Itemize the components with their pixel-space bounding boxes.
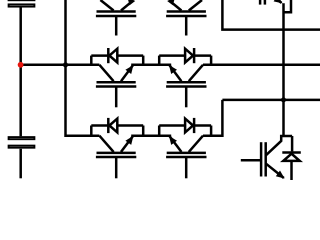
IGBT Q0 with diode D0: emitter wire (clipped): [121, 1, 133, 11]
wire bottom rail right + riser to output: [203, 100, 222, 136]
IGBT Q2 with diode D2: emitter arrow: [125, 65, 133, 74]
wire midpoint rail left segment: [21, 64, 100, 67]
IGBT Q2 with diode D2: emitter wire: [121, 65, 133, 81]
diode D7 cathode lead: [291, 136, 294, 151]
transistor Q6 emitter arrow: [274, 0, 283, 3]
IGBT Q0 with diode D0: gate bar: [96, 15, 136, 18]
wire C1 to midpoint node: [19, 7, 22, 64]
IGBT Q5 with diode D5: body bar: [167, 152, 206, 155]
IGBT Q4 with diode D4: body bar: [97, 152, 136, 155]
wire midpoint rail centre segment: [131, 64, 171, 67]
IGBT Q0 with diode D0: collector wire (clipped): [100, 0, 113, 11]
junction dot node B (phase rail / output rail): [281, 97, 286, 102]
IGBT Q3 with diode D3: gate lead: [185, 87, 188, 108]
IGBT Q3 with diode D3: body bar: [167, 81, 206, 84]
wire output rail y=100: [222, 99, 320, 102]
IGBT Q2 with diode D2: diode symbol: [107, 48, 110, 63]
transistor Q6 gate bar (clipped): [259, 0, 262, 5]
IGBT Q5 with diode D5: emitter wire: [169, 136, 181, 152]
transistor Q7 gate bar: [260, 142, 263, 176]
IGBT Q5 with diode D5: emitter arrow: [169, 136, 177, 145]
diode D7 triangle: [283, 154, 299, 161]
IGBT Q0 with diode D0: emitter arrow (clipped): [127, 0, 135, 5]
capacitor C1 bottom plate: [9, 4, 35, 6]
transistor Q7 emitter wire: [266, 164, 284, 178]
IGBT Q1 with diode D1: collector wire (clipped): [189, 0, 202, 11]
IGBT Q5 with diode D5: diode symbol: [193, 118, 196, 133]
wire below C2: [19, 149, 22, 179]
IGBT Q1 with diode D1: gate lead: [185, 16, 188, 36]
wire midpoint node to C2: [19, 65, 22, 136]
IGBT Q1 with diode D1: gate bar: [166, 15, 206, 18]
IGBT Q0 with diode D0: gate lead: [115, 16, 118, 36]
wire midpoint rail right segment: [203, 64, 320, 67]
transistor Q7 collector wire with jog: [266, 136, 292, 155]
IGBT Q3 with diode D3: gate bar: [166, 85, 206, 88]
transistor Q7 emitter arrow: [276, 171, 285, 179]
IGBT Q1 with diode D1: body bar: [167, 10, 206, 13]
wire inner-left rail down to bottom row: [66, 0, 100, 136]
IGBT Q3 with diode D3: emitter arrow: [169, 65, 177, 74]
diode D7 anode lead: [290, 161, 293, 181]
IGBT Q1 with diode D1: emitter arrow (clipped): [167, 0, 175, 5]
wire inner net top corner: [222, 0, 320, 30]
transistor Q7 body bar: [264, 142, 267, 176]
capacitor C1 top plate (clipped): [8, 0, 36, 1]
IGBT Q2 with diode D2: collector wire: [99, 65, 113, 81]
junction dot node A (inner rail / midpoint rail): [63, 62, 68, 67]
IGBT Q3 with diode D3: collector wire: [189, 65, 203, 81]
capacitor C2 bottom plate: [9, 146, 35, 148]
IGBT Q5 with diode D5: collector wire: [189, 136, 203, 152]
IGBT Q2 with diode D2: body bar: [97, 81, 136, 84]
IGBT Q4 with diode D4: diode symbol: [107, 118, 110, 133]
IGBT Q1 with diode D1: emitter wire (clipped): [169, 1, 181, 11]
IGBT Q4 with diode D4: diode loop wires: [90, 126, 93, 136]
IGBT Q4 with diode D4: gate bar: [96, 156, 136, 159]
diode D6 anode lead (clipped): [284, 0, 292, 12]
transistor Q7 gate lead: [241, 159, 261, 162]
transistor Q6 emitter wire: [267, 0, 282, 3]
IGBT Q4 with diode D4: gate lead: [115, 157, 118, 178]
IGBT Q3 with diode D3: diode loop wires: [210, 56, 213, 65]
transistor Q6 body bar (clipped): [264, 0, 267, 5]
IGBT Q3 with diode D3: emitter wire: [169, 65, 181, 81]
IGBT Q4 with diode D4: emitter arrow: [125, 136, 133, 145]
IGBT Q3 with diode D3: diode symbol: [193, 48, 196, 63]
IGBT Q4 with diode D4: emitter wire: [121, 136, 133, 152]
wire bottom rail centre segment: [131, 134, 171, 137]
wire phase rail: [282, 3, 285, 136]
node M red junction dot (DC midpoint): [18, 62, 24, 68]
diode D7 cathode bar: [282, 151, 301, 154]
IGBT Q5 with diode D5: diode loop wires: [210, 126, 213, 136]
IGBT Q4 with diode D4: collector wire: [99, 136, 113, 152]
IGBT Q0 with diode D0: body bar: [97, 10, 136, 13]
capacitor C2 top plate: [9, 137, 35, 139]
IGBT Q5 with diode D5: gate bar: [166, 156, 206, 159]
IGBT Q2 with diode D2: gate lead: [115, 87, 118, 108]
IGBT Q2 with diode D2: gate bar: [96, 85, 136, 88]
IGBT Q5 with diode D5: gate lead: [185, 157, 188, 178]
IGBT Q2 with diode D2: diode loop wires: [90, 56, 93, 65]
